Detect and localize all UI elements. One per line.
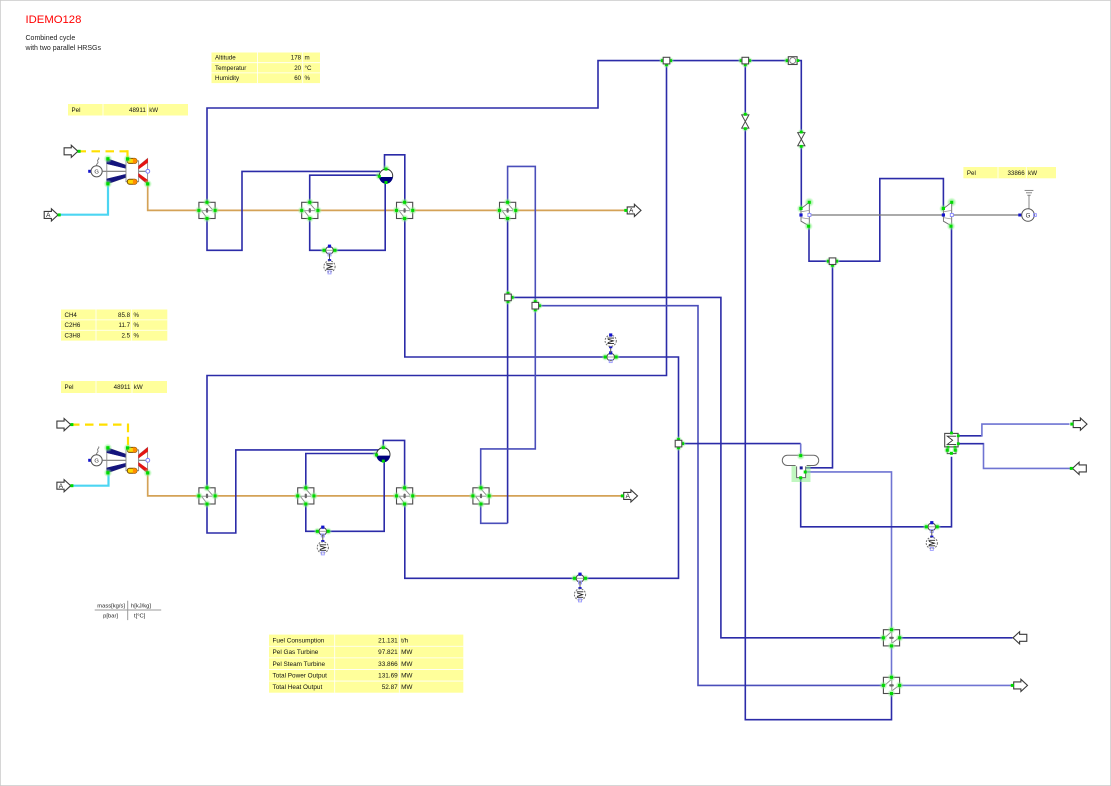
svg-text:MW: MW [401,684,413,691]
wire exhaust gas GT2 to stack [148,473,624,496]
svg-text:mass[kg/s]: mass[kg/s] [97,604,125,610]
wire DH supply from condenser [958,435,982,437]
svg-text:A: A [626,493,631,500]
compressor G2 / GT2 [104,443,127,477]
wire main steam HRSG2 to header [207,64,667,488]
wire drum2 downcomer to circ pump2 [306,461,384,531]
svg-text:33866: 33866 [1007,170,1025,177]
svg-text:kW: kW [134,384,143,391]
turbine G1 / GT1 [139,159,153,189]
exhaust outlet arrow HRSG2 [621,490,638,502]
wire drum1 steam to superheater1 [207,171,380,250]
svg-text:A: A [59,483,64,490]
wire economizer1 steam to drum1 [385,155,405,203]
condensate pump [923,521,942,550]
svg-text:G: G [1026,212,1031,219]
node header junction 1 [659,57,674,68]
svg-text:G: G [94,170,99,176]
wire DH return from grid [984,443,1071,469]
svg-text:%: % [134,322,140,329]
wire bypass down to DH heater [745,128,891,719]
circulation pump 2 [314,526,333,555]
wire preheated condensate main [538,306,884,686]
table plant results [269,635,463,693]
svg-text:178: 178 [291,55,302,62]
steam turbine HP stage [797,197,815,230]
svg-text:p[bar]: p[bar] [103,614,118,620]
wire economizer2 steam to drum2 [383,440,404,487]
svg-text:MW: MW [401,649,413,656]
subtitle [25,35,102,52]
wire HP turbine exhaust [809,226,829,261]
wire evaporator2 riser [306,454,377,488]
svg-text:Altitude: Altitude [215,55,236,62]
condenser hotwell outlet [944,447,959,455]
shaft G2 / GT2 [102,459,147,461]
wire feedwater junction to tank [682,443,801,445]
wire tank drain to DH heaters [806,472,892,630]
wire drum2 steam to superheater2 [207,450,380,533]
economizer HX3-1 [392,198,417,223]
valve turbine inlet [797,129,805,150]
fuel inlet arrow GT2 [57,419,74,431]
feedwater pump 1 [601,333,620,362]
svg-text:IDEMO128: IDEMO128 [26,14,82,26]
compressor G1 / GT1 [104,154,127,188]
svg-text:C3H8: C3H8 [65,333,81,340]
wire DH heater interconnect [891,646,893,677]
wire DH supply to grid [982,424,1070,437]
wire fuel line GT1 (yellow dashed) [78,150,128,152]
wire condensate pump discharge [937,457,951,527]
node feedwater junction [675,436,686,451]
wire feedwater to economizer2 [405,447,679,579]
svg-text:C2H6: C2H6 [65,322,81,329]
exhaust outlet arrow HRSG1 [624,204,641,216]
label Pel GT2 [61,381,167,393]
wire extraction steam to deaerator [801,265,832,468]
table fuel composition [61,310,167,341]
node header junction 2 [738,57,753,68]
mixer live steam header [783,57,799,65]
condensate preheater HX4-1 [495,198,520,223]
svg-text:Humidity: Humidity [215,75,240,82]
superheater HX1-2 [195,484,220,509]
svg-text:Total Power Output: Total Power Output [273,672,328,679]
svg-text:A: A [46,212,51,219]
svg-text:Total Heat Output: Total Heat Output [273,684,323,691]
feedwater pump 2 [571,573,590,602]
svg-text:60: 60 [294,75,301,82]
generator G3 ground symbol [1025,190,1034,208]
svg-text:G: G [94,459,99,465]
wire HP turbine inlet [800,146,802,208]
svg-text:h[kJ/kg]: h[kJ/kg] [131,604,151,610]
condenser [945,432,960,449]
DH water inlet arrow B [1013,632,1027,644]
svg-text:85.8: 85.8 [118,312,131,319]
wire fuel line GT2 (yellow dashed) [71,424,128,426]
label Pel steam turbine [963,167,1056,178]
district heating condenser B [879,673,904,698]
combustion chamber G1 / GT1 [123,155,138,185]
wire DH return to condenser [958,443,983,445]
generator G1 / GT1 ground symbol [96,158,98,166]
generator G2 / GT2 ground symbol [96,447,98,455]
wire evaporator1 riser [310,175,379,202]
condensate preheater HX4-2 [469,484,494,509]
svg-text:%: % [305,75,311,82]
shaft G1 / GT1 [102,170,147,172]
district heating supply arrow [1070,418,1087,430]
valve HP bypass [741,111,749,132]
node condensate junction 1 [504,290,515,305]
economizer HX3-2 [392,484,417,509]
svg-text:52.87: 52.87 [382,684,398,691]
svg-text:MW: MW [401,672,413,679]
circulation pump 1 [320,245,339,274]
wire condensate to preheater1 [507,218,509,523]
svg-text:131.69: 131.69 [378,672,398,679]
node condensate junction 2 [532,298,543,313]
district heating condenser A [879,626,904,651]
svg-text:kW: kW [1028,170,1037,177]
wire HP bypass line [744,64,746,115]
svg-text:t/h: t/h [401,638,409,645]
wire district heating water in [900,637,1013,639]
svg-text:Temperatur: Temperatur [215,65,246,72]
wire air line GT1 (cyan) [59,184,109,215]
label Pel GT1 [68,104,188,116]
feedwater tank / deaerator [782,452,818,482]
air inlet arrow GT1 [44,209,61,221]
wire crossover to LP turbine [836,179,944,262]
shaft steam turbine set [810,214,1022,216]
svg-text:kW: kW [149,107,158,114]
wire air line GT2 (cyan) [72,473,109,486]
svg-text:Pel: Pel [967,170,976,177]
combustion chamber G2 / GT2 [123,444,138,474]
svg-text:A: A [629,208,634,215]
steam turbine LP stage [939,197,957,230]
evaporator HX2-2 [294,484,319,509]
svg-text:°C: °C [305,65,312,72]
wire feedwater to economizer1 [405,218,679,440]
svg-text:20: 20 [294,65,301,72]
svg-text:48911: 48911 [114,384,131,391]
legend value cross [95,601,162,620]
district heating return arrow [1070,462,1087,474]
wire drum1 downcomer to circ pump1 [310,183,386,251]
wire condensate tank outlet [801,478,927,527]
svg-text:Pel: Pel [65,384,74,391]
DH water outlet arrow B [1011,679,1028,691]
svg-text:2.5: 2.5 [121,333,130,340]
svg-text:t[°C]: t[°C] [134,614,146,620]
svg-text:33.866: 33.866 [378,661,398,668]
evaporator HX2-1 [298,198,323,223]
generator G1 / GT1 [88,166,102,177]
svg-text:Pel: Pel [72,107,81,114]
node extraction junction [825,258,840,269]
svg-text:48911: 48911 [129,107,146,114]
svg-text:21.131: 21.131 [378,638,398,645]
svg-text:%: % [134,333,140,340]
svg-text:MW: MW [401,661,413,668]
steam drum 2 [372,443,390,462]
superheater HX1-1 [195,198,220,223]
svg-text:97.821: 97.821 [378,649,398,656]
wire exhaust gas GT1 to stack [148,184,628,211]
table ambient conditions [212,53,321,84]
generator G2 / GT2 [88,455,102,466]
wire condensate to preheater2 [481,504,508,523]
wire district heating water out [900,684,1013,686]
svg-text:with two parallel HRSGs: with two parallel HRSGs [25,45,102,52]
wire preheater1 outlet [508,166,536,302]
svg-text:Fuel Consumption: Fuel Consumption [273,638,325,645]
svg-text:m: m [305,55,310,62]
svg-text:11.7: 11.7 [119,322,131,329]
wire main steam HRSG1 to header [207,61,787,203]
wire condensate supply main [511,297,883,637]
wire preheater2 outlet [481,309,536,488]
wire tank inlet drop [800,444,802,456]
svg-text:%: % [134,312,140,319]
steam drum 1 [375,165,393,184]
fuel inlet arrow GT1 [64,145,81,157]
generator G3 [1018,209,1036,222]
svg-text:Combined cycle: Combined cycle [26,35,76,42]
wire live steam to HP turbine [797,61,801,133]
svg-text:Pel Steam Turbine: Pel Steam Turbine [273,661,326,668]
svg-text:CH4: CH4 [65,312,78,319]
svg-text:Pel Gas Turbine: Pel Gas Turbine [273,649,319,656]
air inlet arrow GT2 [57,480,74,492]
turbine G2 / GT2 [139,448,153,478]
wire LP exhaust to condenser [951,226,953,433]
